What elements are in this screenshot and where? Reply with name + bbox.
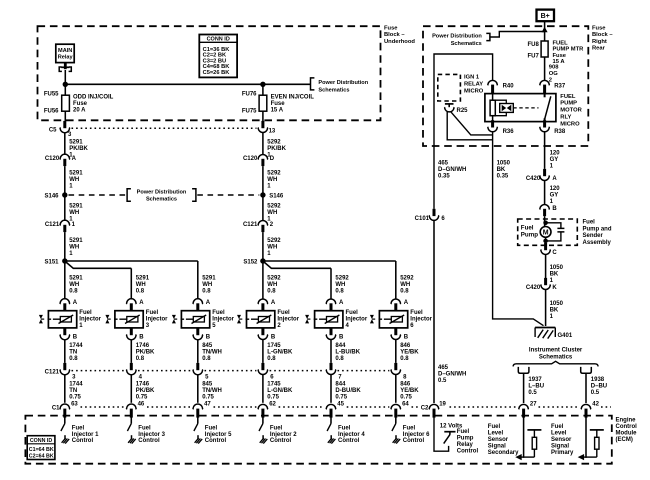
svg-text:C420: C420 bbox=[526, 176, 541, 182]
svg-text:MOTOR: MOTOR bbox=[560, 108, 582, 114]
wire S152 branch to injector 4 bbox=[263, 262, 331, 269]
svg-text:D: D bbox=[270, 156, 275, 162]
node pump top junction bbox=[543, 221, 548, 226]
svg-text:5291: 5291 bbox=[69, 203, 83, 209]
svg-text:D–BU: D–BU bbox=[591, 384, 607, 390]
svg-text:0.5: 0.5 bbox=[528, 390, 537, 396]
svg-text:PUMP: PUMP bbox=[560, 101, 577, 107]
svg-text:WH: WH bbox=[136, 282, 146, 288]
connector R25 bbox=[444, 107, 454, 112]
svg-text:5291: 5291 bbox=[69, 139, 83, 145]
svg-text:C121: C121 bbox=[45, 222, 60, 228]
svg-text:5292: 5292 bbox=[267, 170, 281, 176]
svg-text:Engine: Engine bbox=[616, 418, 637, 424]
fuel injector 2 bbox=[247, 311, 275, 328]
connector injector 2 pin A bbox=[258, 299, 268, 304]
svg-text:Fuel: Fuel bbox=[79, 310, 92, 316]
connector C121 pin 5 bbox=[196, 363, 199, 370]
svg-text:5291: 5291 bbox=[69, 275, 83, 281]
svg-text:Signal: Signal bbox=[488, 444, 506, 450]
svg-text:A: A bbox=[271, 300, 276, 306]
svg-text:B: B bbox=[339, 335, 344, 341]
wire feed to injector 3 pin A bbox=[130, 268, 132, 299]
svg-text:R38: R38 bbox=[554, 129, 566, 135]
svg-text:465: 465 bbox=[438, 365, 449, 371]
svg-text:1745: 1745 bbox=[267, 381, 281, 387]
fuse block right rear (dashed box) bbox=[423, 26, 588, 146]
svg-text:Schematics: Schematics bbox=[318, 87, 349, 93]
svg-text:62: 62 bbox=[269, 401, 276, 407]
svg-text:1746: 1746 bbox=[136, 343, 150, 349]
wire injector 5 to C121 bbox=[197, 339, 199, 363]
svg-text:0.35: 0.35 bbox=[438, 173, 450, 179]
svg-text:Fuel: Fuel bbox=[138, 426, 151, 432]
svg-text:Injector 5: Injector 5 bbox=[205, 432, 232, 438]
connector C5 pin 3 bbox=[63, 121, 66, 128]
svg-text:Control: Control bbox=[138, 438, 160, 444]
svg-text:846: 846 bbox=[400, 381, 411, 387]
connector C5 pin 13 bbox=[261, 121, 264, 128]
svg-text:1050: 1050 bbox=[550, 301, 564, 307]
svg-text:Fuse: Fuse bbox=[384, 26, 398, 32]
connector C1 pin 62 bbox=[258, 404, 268, 409]
svg-text:C420: C420 bbox=[526, 285, 541, 291]
svg-text:0.5: 0.5 bbox=[591, 390, 600, 396]
svg-text:FU8: FU8 bbox=[527, 42, 539, 48]
connector injector 2 pin B bbox=[261, 328, 264, 335]
svg-text:Power Distribution: Power Distribution bbox=[137, 189, 187, 195]
svg-text:Fuel: Fuel bbox=[277, 310, 290, 316]
svg-text:13: 13 bbox=[269, 128, 276, 134]
svg-text:19: 19 bbox=[439, 401, 446, 407]
wire EVEN fuse feed bbox=[262, 84, 264, 95]
svg-text:B: B bbox=[206, 335, 211, 341]
svg-text:0.8: 0.8 bbox=[136, 356, 145, 362]
wire FU7 to R37 bbox=[544, 57, 546, 81]
svg-text:Fuel: Fuel bbox=[583, 220, 596, 226]
node splice S146 (right) bbox=[260, 192, 265, 197]
wire 5291 WH S146 to C121 bbox=[64, 195, 66, 221]
svg-text:FU76: FU76 bbox=[242, 92, 257, 98]
svg-text:Fuel: Fuel bbox=[270, 426, 283, 432]
svg-text:A: A bbox=[339, 300, 344, 306]
svg-text:0.8: 0.8 bbox=[136, 288, 145, 294]
svg-text:Level: Level bbox=[551, 431, 567, 437]
svg-text:Control: Control bbox=[72, 438, 94, 444]
svg-text:Control: Control bbox=[616, 424, 638, 430]
svg-text:844: 844 bbox=[335, 381, 346, 387]
svg-text:Block –: Block – bbox=[592, 32, 613, 38]
svg-text:ODD INJ/COIL: ODD INJ/COIL bbox=[73, 95, 114, 101]
svg-text:120: 120 bbox=[550, 186, 561, 192]
svg-text:Pump: Pump bbox=[457, 436, 474, 442]
ground G401 bbox=[535, 327, 555, 329]
svg-text:GY: GY bbox=[550, 157, 559, 163]
svg-text:CONN ID: CONN ID bbox=[207, 37, 230, 43]
svg-text:0.8: 0.8 bbox=[335, 288, 344, 294]
svg-text:WH: WH bbox=[202, 282, 212, 288]
wire pin 19 to relay control switch bbox=[434, 416, 449, 451]
svg-text:A: A bbox=[139, 300, 144, 306]
connector C121 pin 6 bbox=[261, 363, 264, 370]
svg-text:0.8: 0.8 bbox=[69, 356, 78, 362]
connector C5 row (dotted) bbox=[72, 127, 257, 129]
svg-text:Control: Control bbox=[205, 438, 227, 444]
connector injector 4 pin B bbox=[330, 328, 333, 335]
svg-text:Right: Right bbox=[592, 39, 607, 45]
ECM fuel level sensor primary input (resistor+arrow) bbox=[583, 456, 597, 458]
CONN ID table (underhood) bbox=[199, 35, 237, 78]
svg-text:FU7: FU7 bbox=[527, 54, 539, 60]
svg-text:0.5: 0.5 bbox=[438, 378, 447, 384]
wire S146 to power distribution schematics (dashed) bbox=[69, 194, 127, 196]
node splice S151 bbox=[62, 258, 67, 263]
connector injector 3 pin A bbox=[126, 299, 136, 304]
fuel injector 4 bbox=[315, 311, 343, 328]
svg-text:PK/BK: PK/BK bbox=[267, 146, 286, 152]
svg-text:R37: R37 bbox=[554, 84, 566, 90]
svg-text:B+: B+ bbox=[541, 13, 550, 20]
svg-text:D–GN/WH: D–GN/WH bbox=[438, 167, 466, 173]
svg-text:0.75: 0.75 bbox=[400, 394, 412, 400]
node feed junction w/ arrow bbox=[542, 27, 548, 33]
connector C121 pin 4 bbox=[130, 363, 133, 370]
svg-text:S151: S151 bbox=[44, 259, 59, 265]
svg-text:TN/WH: TN/WH bbox=[202, 388, 222, 394]
svg-text:BK: BK bbox=[550, 272, 559, 278]
wire R25 to ground wire (left leg) bbox=[447, 112, 492, 140]
wire 5292 WH S146 to C121 bbox=[262, 195, 264, 221]
svg-text:WH: WH bbox=[267, 210, 277, 216]
connector C121 pin 8 bbox=[394, 363, 397, 370]
connector injector 6 pin A bbox=[391, 299, 401, 304]
svg-text:C5=26 BK: C5=26 BK bbox=[203, 70, 231, 76]
svg-text:Secondary: Secondary bbox=[488, 450, 519, 456]
svg-text:Fuse: Fuse bbox=[592, 26, 606, 32]
ECM driver fuel injector 6 control bbox=[395, 416, 397, 424]
svg-text:Signal: Signal bbox=[551, 444, 569, 450]
svg-text:1744: 1744 bbox=[69, 343, 83, 349]
svg-text:Control: Control bbox=[270, 438, 292, 444]
svg-text:Block –: Block – bbox=[384, 32, 405, 38]
wire pin C to C420 K bbox=[545, 254, 547, 278]
svg-text:Assembly: Assembly bbox=[583, 240, 612, 246]
wire injector 1 control to C1 bbox=[64, 374, 66, 403]
svg-text:L-GN/BK: L-GN/BK bbox=[267, 349, 293, 355]
svg-text:BK: BK bbox=[550, 308, 559, 314]
node splice S152 bbox=[260, 258, 265, 263]
svg-text:TN: TN bbox=[69, 349, 77, 355]
svg-text:D-BU/BK: D-BU/BK bbox=[335, 388, 361, 394]
svg-text:L–BU: L–BU bbox=[528, 384, 544, 390]
relay fuel pump motor rly micro (box) bbox=[485, 94, 556, 122]
svg-text:1937: 1937 bbox=[528, 377, 542, 383]
svg-text:C2=64 BK: C2=64 BK bbox=[29, 453, 54, 459]
svg-text:1050: 1050 bbox=[550, 265, 564, 271]
node pump bottom junction bbox=[543, 239, 548, 244]
svg-text:845: 845 bbox=[202, 343, 213, 349]
svg-text:A: A bbox=[552, 176, 557, 182]
svg-text:120: 120 bbox=[550, 150, 561, 156]
svg-text:(ECM): (ECM) bbox=[616, 437, 633, 443]
svg-text:S146: S146 bbox=[269, 193, 284, 199]
svg-text:Schematics: Schematics bbox=[146, 197, 177, 203]
svg-text:B: B bbox=[552, 206, 557, 212]
wire S151 branch to injector 5 bbox=[65, 260, 198, 262]
off-page connector (cluster) 1938 bbox=[581, 367, 592, 373]
bracket left (S146 row) bbox=[127, 189, 131, 202]
svg-text:465: 465 bbox=[438, 160, 449, 166]
svg-text:5292: 5292 bbox=[267, 139, 281, 145]
connector R36 bbox=[491, 120, 494, 127]
svg-text:A: A bbox=[404, 300, 409, 306]
svg-text:L-BU/BK: L-BU/BK bbox=[335, 349, 360, 355]
fuel injector 6 bbox=[379, 311, 407, 328]
connector C1 pin 64 bbox=[391, 404, 401, 409]
svg-text:Fuel: Fuel bbox=[338, 426, 351, 432]
connector C2 pin 27 bbox=[519, 404, 529, 409]
fuel injector 3 bbox=[115, 311, 143, 328]
wire pin B into pump bbox=[544, 216, 546, 227]
MAIN relay output terminal (socket+pin) bbox=[64, 63, 67, 70]
svg-text:Schematics: Schematics bbox=[451, 41, 482, 47]
svg-text:5292: 5292 bbox=[335, 275, 349, 281]
svg-text:64: 64 bbox=[402, 401, 409, 407]
svg-text:WH: WH bbox=[69, 282, 79, 288]
svg-text:908: 908 bbox=[549, 65, 559, 71]
wire 1050 BK 0.35 to ground run bbox=[493, 132, 544, 326]
CONN ID table (ECM) bbox=[27, 436, 55, 460]
brace instrument cluster bbox=[513, 361, 598, 366]
fuse block underhood (dashed box) bbox=[38, 26, 381, 120]
svg-text:L-GN/BK: L-GN/BK bbox=[267, 388, 293, 394]
IGN1 output terminal pin bbox=[445, 103, 454, 105]
svg-text:RLY: RLY bbox=[560, 115, 571, 121]
svg-text:PK/BK: PK/BK bbox=[69, 146, 88, 152]
svg-text:1050: 1050 bbox=[497, 160, 511, 166]
connector C121 pin 7 bbox=[330, 363, 333, 370]
ECM driver fuel injector 5 control bbox=[197, 416, 199, 424]
svg-text:846: 846 bbox=[400, 343, 411, 349]
svg-text:Injector: Injector bbox=[146, 317, 168, 323]
ECM driver fuel injector 3 control bbox=[130, 416, 132, 424]
wire ODD fuse to C5 bbox=[64, 111, 66, 121]
wire 5291 WH C120 to S146 bbox=[64, 166, 66, 192]
svg-text:YE/BK: YE/BK bbox=[400, 388, 419, 394]
ECM driver fuel injector 2 control bbox=[262, 416, 264, 424]
svg-text:Injector 6: Injector 6 bbox=[403, 432, 430, 438]
node splice S146 (left) bbox=[62, 192, 67, 197]
svg-text:R25: R25 bbox=[457, 108, 469, 114]
connector C1 pin 46 bbox=[126, 404, 136, 409]
wire feed to injector 5 pin A bbox=[197, 261, 199, 300]
svg-text:Injector: Injector bbox=[79, 317, 101, 323]
wire MAIN relay to ODD fuse bbox=[64, 70, 66, 95]
wire 5291 WH C121 to splice bbox=[64, 232, 66, 261]
svg-text:1746: 1746 bbox=[136, 381, 150, 387]
svg-text:5292: 5292 bbox=[267, 238, 281, 244]
connector fuel pump pin C bbox=[544, 243, 547, 250]
svg-text:1744: 1744 bbox=[69, 381, 83, 387]
svg-text:C121: C121 bbox=[243, 222, 258, 228]
svg-text:1938: 1938 bbox=[591, 377, 605, 383]
svg-text:OG: OG bbox=[549, 71, 559, 77]
svg-text:63: 63 bbox=[71, 401, 78, 407]
svg-text:5292: 5292 bbox=[400, 275, 414, 281]
connector injector 1 pin B bbox=[63, 328, 66, 335]
svg-text:Fuel: Fuel bbox=[212, 310, 225, 316]
ECM fuel pump relay control switch bbox=[444, 431, 455, 433]
svg-text:Fuel: Fuel bbox=[146, 310, 159, 316]
battery B+ terminal bbox=[537, 10, 555, 22]
svg-text:K: K bbox=[552, 285, 557, 291]
wire 465 feed from top corner bbox=[434, 54, 493, 209]
svg-text:15 A: 15 A bbox=[271, 108, 284, 114]
svg-text:B: B bbox=[271, 335, 276, 341]
wire C420 K to ground bbox=[545, 289, 547, 326]
wire S151 branch to injector 3 bbox=[65, 262, 131, 269]
connector injector 3 pin B bbox=[130, 328, 133, 335]
connector C121 row (dotted) bbox=[72, 370, 125, 372]
svg-text:Fuse: Fuse bbox=[73, 101, 88, 107]
svg-text:5291: 5291 bbox=[202, 275, 216, 281]
svg-text:Schematics: Schematics bbox=[539, 355, 573, 361]
svg-text:PK/BK: PK/BK bbox=[136, 349, 155, 355]
svg-text:WH: WH bbox=[267, 282, 277, 288]
wire fuel level sensor primary into ECM bbox=[585, 416, 587, 458]
svg-text:5292: 5292 bbox=[267, 203, 281, 209]
svg-text:MICRO: MICRO bbox=[464, 89, 484, 95]
svg-text:IGN 1: IGN 1 bbox=[464, 75, 480, 81]
svg-text:27: 27 bbox=[530, 401, 537, 407]
svg-text:M: M bbox=[543, 229, 549, 236]
svg-text:Instrument Cluster: Instrument Cluster bbox=[529, 347, 583, 353]
svg-text:Relay: Relay bbox=[58, 55, 74, 61]
fuel injector 1 bbox=[48, 311, 76, 328]
fuel injector 5 bbox=[181, 311, 209, 328]
connector C1 pin 47 bbox=[193, 404, 203, 409]
wire injector 1 to C121 bbox=[64, 339, 66, 363]
svg-text:BK: BK bbox=[497, 167, 506, 173]
svg-text:C5: C5 bbox=[49, 128, 57, 134]
IGN 1 RELAY MICRO dashed box bbox=[438, 74, 461, 101]
connector R37 bbox=[540, 80, 550, 85]
relay K1 MAIN Relay box bbox=[56, 44, 74, 62]
svg-text:TN: TN bbox=[69, 388, 77, 394]
svg-text:5291: 5291 bbox=[69, 238, 83, 244]
svg-text:PK/BK: PK/BK bbox=[136, 388, 155, 394]
svg-text:Injector 1: Injector 1 bbox=[72, 432, 99, 438]
bracket power distribution (right) bbox=[486, 33, 490, 40]
connector C1 pin 63 bbox=[60, 404, 70, 409]
connector injector 5 pin A bbox=[193, 299, 203, 304]
svg-text:Fuel: Fuel bbox=[403, 426, 416, 432]
svg-text:WH: WH bbox=[69, 177, 79, 183]
ECM fuel level sensor secondary input (resistor+arrow) bbox=[521, 456, 535, 458]
ECM dashed box bbox=[25, 416, 611, 464]
svg-text:0.75: 0.75 bbox=[335, 394, 347, 400]
svg-text:S146: S146 bbox=[44, 193, 59, 199]
svg-text:Level: Level bbox=[488, 431, 504, 437]
wire 5292 WH C120 to S146 bbox=[262, 166, 264, 192]
connector R38 bbox=[543, 120, 546, 127]
wire feed to injector 6 pin A bbox=[395, 261, 397, 300]
connector C1 row (dotted) bbox=[81, 406, 125, 408]
svg-text:Control: Control bbox=[338, 438, 360, 444]
wire R38 to C420 A bbox=[544, 132, 546, 169]
motor M fuel pump bbox=[540, 227, 551, 238]
svg-text:5291: 5291 bbox=[136, 275, 150, 281]
svg-text:Pump: Pump bbox=[521, 232, 538, 239]
wire 1937 L&#8211;BU 0.5 bbox=[523, 373, 525, 403]
connector injector 4 pin A bbox=[326, 299, 336, 304]
wire injector 3 control to C1 bbox=[130, 374, 132, 403]
relay coil bbox=[492, 93, 494, 100]
wire injector 6 control to C1 bbox=[395, 374, 397, 403]
svg-text:Injector: Injector bbox=[212, 317, 234, 323]
svg-text:C2: C2 bbox=[421, 405, 429, 411]
svg-text:Injector: Injector bbox=[277, 317, 299, 323]
svg-text:0.8: 0.8 bbox=[335, 356, 344, 362]
relay coil-contact link (dashed) bbox=[513, 107, 538, 109]
svg-text:Rear: Rear bbox=[592, 46, 606, 52]
svg-text:C: C bbox=[552, 250, 557, 256]
wire R25 to R36 (diagonal) bbox=[451, 112, 493, 135]
svg-text:Sensor: Sensor bbox=[551, 437, 572, 443]
capacitor across pump motor bbox=[546, 223, 561, 241]
svg-text:C120: C120 bbox=[243, 156, 258, 162]
node junction at ODD fuse feed bbox=[63, 82, 68, 87]
wire 5292 WH C121 to splice bbox=[262, 232, 264, 261]
wire B+ to FU8 fuse bbox=[544, 21, 546, 41]
svg-text:20 A: 20 A bbox=[73, 108, 86, 114]
wire feed to injector 1 pin A bbox=[64, 261, 66, 300]
svg-text:Injector 4: Injector 4 bbox=[338, 432, 365, 438]
svg-text:5292: 5292 bbox=[267, 275, 281, 281]
svg-text:CONN ID: CONN ID bbox=[30, 438, 53, 444]
svg-text:Control: Control bbox=[403, 438, 425, 444]
svg-text:Fuse: Fuse bbox=[271, 101, 286, 107]
off-page connector (cluster) 1937 bbox=[518, 367, 529, 373]
svg-text:Fuel: Fuel bbox=[521, 225, 534, 232]
svg-text:42: 42 bbox=[592, 401, 599, 407]
svg-text:1745: 1745 bbox=[267, 343, 281, 349]
connector C1 pin 45 bbox=[326, 404, 336, 409]
svg-text:B: B bbox=[404, 335, 409, 341]
svg-text:47: 47 bbox=[204, 401, 211, 407]
svg-text:A: A bbox=[73, 300, 78, 306]
svg-text:Fuel: Fuel bbox=[551, 424, 564, 430]
svg-text:G401: G401 bbox=[558, 333, 573, 339]
connector injector 6 pin B bbox=[394, 328, 397, 335]
svg-text:Fuse: Fuse bbox=[553, 53, 567, 59]
svg-text:TN/WH: TN/WH bbox=[202, 349, 222, 355]
wire feed to injector 2 pin A bbox=[262, 261, 264, 300]
wire to power distribution schematics (right) bbox=[490, 32, 545, 38]
svg-text:Pump and: Pump and bbox=[583, 226, 612, 232]
ECM driver fuel injector 1 control bbox=[64, 416, 66, 424]
svg-text:Injector: Injector bbox=[410, 317, 432, 323]
svg-text:0.8: 0.8 bbox=[267, 356, 276, 362]
svg-text:FU55: FU55 bbox=[44, 92, 59, 98]
svg-text:45: 45 bbox=[337, 401, 344, 407]
svg-text:RELAY: RELAY bbox=[464, 82, 483, 88]
connector C2 pin 42 bbox=[581, 404, 591, 409]
svg-text:WH: WH bbox=[267, 177, 277, 183]
svg-text:YE/BK: YE/BK bbox=[400, 349, 419, 355]
svg-text:FU56: FU56 bbox=[44, 109, 59, 115]
node junction at EVEN fuse feed bbox=[260, 82, 265, 87]
